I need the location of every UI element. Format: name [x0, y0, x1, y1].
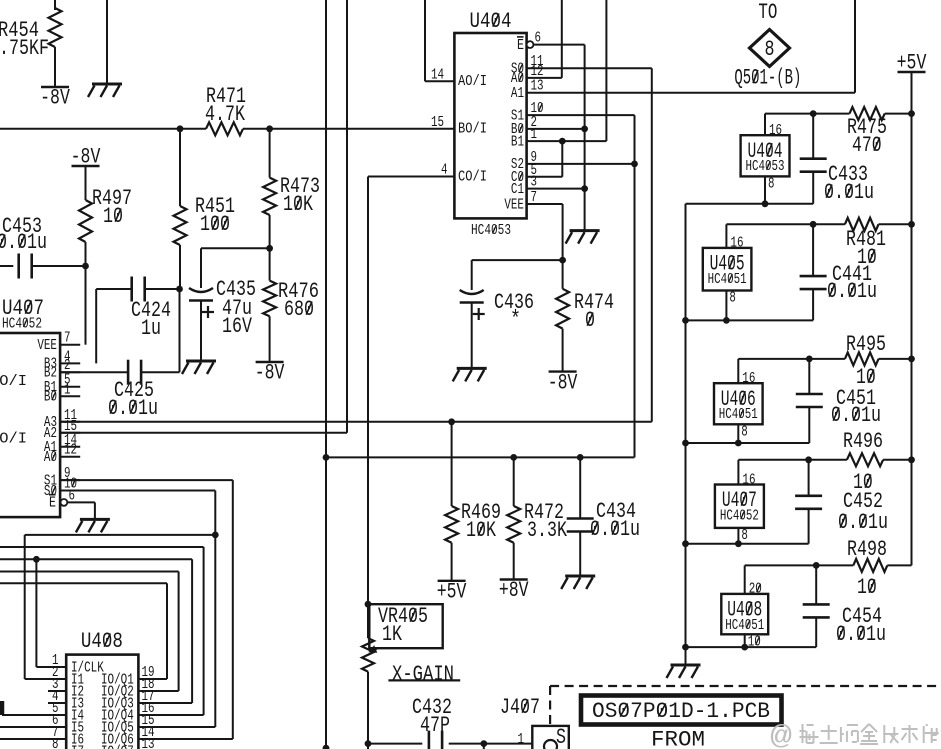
wire U408 pin5 off-page [2, 714, 66, 716]
power box U406 HC4051 [714, 383, 763, 424]
U407 pin 11 (A3) [60, 421, 80, 423]
node top-cap U405 [810, 221, 817, 228]
wire S1 U407 to U408 pin14 [60, 479, 233, 481]
capacitor C436 electrolytic [471, 260, 473, 290]
node S1S2-R472 [510, 454, 517, 461]
wire main bus to U404 BO/I pin 15 [0, 128, 206, 130]
watermark juejin [770, 723, 941, 749]
svg-text:1K: 1K [382, 621, 402, 647]
resistor R476 [263, 281, 276, 317]
svg-text:8: 8 [741, 423, 748, 440]
U407 pin 15 (A2) [60, 432, 80, 434]
node rail U405 [908, 221, 915, 228]
svg-text:20: 20 [749, 581, 762, 598]
wire R451 node down to C425 [179, 289, 181, 372]
svg-text:1: 1 [518, 731, 525, 748]
wire riser x326 page top to U408 pin13 [325, 0, 327, 748]
node x326 S1S2 line [323, 454, 330, 461]
ground bus right column [685, 204, 687, 664]
U404 pin 14 (AO/I) [424, 0, 426, 81]
U407 power pin 8 [737, 528, 739, 544]
svg-text:J407: J407 [500, 694, 540, 720]
U407 pin 6 (E) [61, 499, 68, 506]
wire U404 bypass bottom [686, 203, 814, 205]
wire S0 U407 to U408 pin15 [60, 490, 215, 492]
svg-text:-8V: -8V [71, 144, 101, 170]
wire riser x347 to page top [346, 0, 348, 433]
svg-text:HC4052: HC4052 [2, 316, 42, 333]
power box U407 HC4052 [715, 485, 764, 528]
resistor R497 [85, 166, 87, 200]
node gndbus U407 [682, 540, 689, 547]
wire A2 to riser x347 [60, 432, 347, 434]
+8V supply under R472 [500, 578, 528, 580]
ground under U404 E riser [570, 229, 600, 232]
node pin1-17 line [33, 556, 40, 563]
wire CO/I riser to VR405 [367, 177, 369, 605]
capacitor C425 [127, 360, 130, 385]
capacitor C453 [0, 265, 13, 267]
capacitor C441 [812, 224, 814, 276]
svg-text:+5V: +5V [437, 579, 467, 605]
svg-text:8: 8 [52, 736, 59, 749]
U404 power pin 16 [764, 114, 766, 136]
svg-text:7: 7 [64, 330, 71, 347]
op IC U408 box [66, 655, 138, 749]
svg-text:TO: TO [758, 0, 777, 25]
wire U408 pin19 route [138, 678, 167, 680]
node B1-C0 link [559, 138, 566, 145]
svg-text:HC4053: HC4053 [471, 222, 511, 239]
U404 pin 6 (E) [527, 41, 534, 48]
node x326 U408 pin13 [323, 745, 330, 749]
U407 pin 5 (B1) [60, 386, 80, 388]
resistor R471 [206, 122, 243, 135]
capacitor C435 electrolytic [189, 288, 213, 292]
svg-text:R498: R498 [847, 536, 887, 562]
svg-text:+5V: +5V [897, 50, 927, 76]
capacitor C454 [815, 565, 817, 604]
svg-text:-8V: -8V [548, 369, 578, 395]
wire E U407 to ground [67, 501, 95, 503]
node gndbus U405 [682, 317, 689, 324]
resistor R474 [556, 289, 569, 329]
wire E U404 to ground riser [533, 44, 584, 46]
node rail U404 [908, 110, 915, 117]
svg-text:Q501-(B): Q501-(B) [734, 65, 801, 91]
potentiometer VR405 [369, 604, 442, 648]
node U406 pin8 [735, 440, 742, 447]
wire U406 bypass bottom [686, 442, 810, 444]
resistor R498 [853, 559, 887, 572]
svg-text:12: 12 [64, 442, 77, 459]
svg-text:S: S [556, 724, 566, 749]
svg-text:FROM: FROM [651, 727, 705, 749]
svg-text:U404: U404 [470, 8, 512, 34]
svg-text:HC4051: HC4051 [725, 617, 764, 634]
wire B1 to C0 [561, 141, 563, 177]
node top-cap U408 [813, 562, 820, 569]
capacitor C434 [579, 457, 581, 518]
wire U408 pin15 route [138, 726, 215, 728]
chassis ground (top) [106, 0, 108, 84]
wire U405 bypass top [726, 223, 845, 225]
node rail U407 [908, 456, 915, 463]
svg-text:8: 8 [768, 175, 775, 192]
ground under C436 [457, 367, 487, 370]
svg-text:14: 14 [431, 67, 444, 84]
wire U408 pin7 off-page [0, 738, 66, 740]
svg-text:16: 16 [769, 122, 782, 139]
power box U405 HC4051 [703, 248, 752, 291]
capacitor C424 [95, 289, 97, 363]
-8V supply for R497 [72, 165, 100, 167]
node C453-R497-VEE [82, 263, 89, 270]
op IC U407 HC4052 box [0, 333, 60, 517]
wire U407 bypass top [738, 459, 847, 461]
svg-text:I7: I7 [71, 743, 84, 749]
U406 power pin 8 [737, 424, 739, 443]
svg-text:8: 8 [729, 290, 736, 307]
node VR405 bottom bus [365, 740, 372, 747]
resistor R495 [845, 352, 879, 365]
-8V supply for R476 [256, 361, 284, 363]
U406 power pin 16 [737, 359, 739, 383]
node U408 pin10 [741, 644, 748, 651]
off-page connector 8 to Q501-(B) [750, 30, 790, 67]
resistor R481 [845, 218, 879, 231]
wire U408 pin4 stub [48, 702, 66, 704]
wire U408 pin2 I1 [25, 678, 66, 680]
wire S1 U404 down-left S1S2 line [527, 114, 635, 116]
wire VEE U407 riser [85, 266, 87, 345]
U407 pin 10 (S0) [60, 490, 80, 492]
wire U408 pin3 stub [48, 690, 66, 692]
svg-text:4.75KF: 4.75KF [0, 35, 49, 61]
node A3-R469 [448, 418, 455, 425]
svg-text:OS07P01D-1.PCB: OS07P01D-1.PCB [592, 698, 770, 724]
wire U408 pin6 off-page [0, 726, 66, 728]
svg-text:B0: B0 [44, 389, 57, 406]
wire bottom bus [368, 743, 422, 745]
node C424-R451 [176, 286, 183, 293]
svg-text:@: @ [770, 723, 792, 749]
-8V supply for R474 [549, 370, 577, 372]
ground right column [671, 664, 701, 667]
svg-text:B1: B1 [511, 133, 524, 150]
svg-text:3.3K: 3.3K [527, 517, 567, 543]
svg-text:BO/I: BO/I [458, 121, 487, 138]
resistor R473 [269, 129, 271, 178]
node CO/I riser - VR405 [365, 601, 372, 608]
svg-text:4: 4 [441, 162, 448, 179]
svg-text:VEE: VEE [504, 196, 524, 213]
svg-text:16: 16 [730, 235, 743, 252]
svg-text:U408: U408 [81, 628, 123, 654]
svg-text:R496: R496 [843, 428, 883, 454]
U407 power pin 16 [737, 460, 739, 485]
capacitor C451 [808, 359, 810, 394]
op IC U404 HC4053 box [454, 33, 526, 218]
resistor R451 [179, 129, 181, 206]
U407 pin 1 (B0) [60, 395, 80, 397]
wire S2 U404 to S1S2 riser [527, 163, 635, 165]
U407 pin 9 (S1) [60, 479, 80, 481]
svg-text:16: 16 [742, 471, 755, 488]
power box U408 HC4051 [721, 594, 768, 634]
svg-text:R495: R495 [846, 331, 886, 357]
svg-text:AO/I: AO/I [458, 73, 487, 90]
U407 pin 2 (B2) [60, 371, 80, 373]
svg-text:-8V: -8V [40, 85, 70, 111]
svg-text:+8V: +8V [499, 577, 529, 603]
capacitor C452 [808, 460, 810, 496]
wire U408 pin18 route [138, 690, 178, 692]
resistor R496 [847, 453, 883, 466]
wire U408 pin17 route [138, 702, 192, 704]
resistor R475 [850, 107, 885, 120]
ground under C435 [186, 360, 216, 363]
U408 power pin 10 [744, 634, 746, 647]
svg-text:HC4052: HC4052 [720, 508, 759, 525]
node E riser - C1 [581, 185, 588, 192]
U407 pin 7 (VEE) [60, 344, 80, 346]
ground under C434 [565, 575, 595, 578]
node gndbus U406 [682, 440, 689, 447]
svg-text:*: * [510, 306, 521, 332]
wire U408 bypass bottom [686, 646, 817, 648]
+5V rail [898, 71, 926, 73]
node U405 pin8 [723, 317, 730, 324]
node bottom bus stub [480, 740, 487, 747]
wire A0 U404 riser to top [527, 77, 562, 79]
svg-text:1: 1 [64, 381, 71, 398]
svg-text:15: 15 [431, 114, 444, 131]
wire U404 bypass top [765, 113, 850, 115]
resistor R469 [451, 422, 453, 506]
svg-text:13: 13 [142, 736, 155, 749]
U407 pin 14 (A1) [60, 446, 80, 448]
node R471-R473 [266, 125, 273, 132]
wire A1 U404 to top right [527, 92, 855, 94]
wire B1 U404 riser to top [527, 140, 607, 142]
svg-text:-8V: -8V [255, 360, 285, 386]
svg-text:HC4051: HC4051 [708, 271, 747, 288]
node VEE-R474 [559, 257, 566, 264]
node top-cap U404 [810, 110, 817, 117]
svg-text:A0: A0 [44, 449, 57, 466]
U407 pin 4 (B3) [60, 362, 80, 364]
wire VEE U404 down to C436/R474 [527, 203, 563, 205]
node S1S2-C434 [577, 454, 584, 461]
node S0 riser - I1 branch [212, 532, 219, 539]
node rail U406 [908, 356, 915, 363]
node gndbus U408 [682, 644, 689, 651]
svg-text:HC4053: HC4053 [746, 158, 785, 175]
capacitor C433 [812, 114, 814, 159]
svg-text:VEE: VEE [37, 337, 57, 354]
+5V supply under R469 [438, 580, 466, 582]
wire U408 pin1 I/CLK [36, 666, 66, 668]
-8V supply for R454 [41, 86, 69, 88]
node R473-R476-C435 [266, 245, 273, 252]
node U404 pin8 [762, 200, 769, 207]
svg-text:16V: 16V [222, 313, 252, 339]
wire C435 top to R473/R476 node [201, 247, 270, 249]
U404 power pin 8 [764, 176, 766, 203]
ground under U407 E [80, 518, 110, 521]
U405 power pin 16 [725, 224, 727, 248]
svg-text:680: 680 [284, 296, 314, 322]
wire S0 U404 down to A3 line [527, 67, 652, 69]
svg-text:CO/I: CO/I [458, 169, 487, 186]
wire U407 bypass bottom [686, 543, 809, 545]
svg-text:4.7K: 4.7K [205, 101, 245, 127]
wire B2 to C425 to C424 node [60, 371, 128, 373]
wire U408 bypass top [745, 564, 854, 566]
node U407 pin8 [735, 540, 742, 547]
U404 pin 4 (CO/I) [368, 176, 454, 178]
resistor R472 [513, 457, 515, 506]
wire A3 long to U404 S0 riser [60, 421, 652, 423]
wire U408 pin16 route [138, 714, 203, 716]
svg-text:HC4051: HC4051 [719, 406, 758, 423]
node top-cap U407 [805, 456, 812, 463]
svg-text:E: E [517, 37, 524, 54]
svg-text:BO/I: BO/I [0, 373, 27, 390]
resistor R454 [54, 0, 56, 10]
U405 power pin 8 [725, 291, 727, 321]
capacitor C432 [428, 731, 431, 749]
svg-text:0.01u: 0.01u [0, 229, 47, 255]
node top-cap U406 [806, 356, 813, 363]
svg-text:10: 10 [857, 574, 877, 600]
dashed PCB boundary [549, 686, 551, 726]
wire U406 bypass top [738, 358, 845, 360]
wire U408 pin14 route [138, 738, 232, 740]
svg-text:16: 16 [742, 370, 755, 387]
svg-text:1u: 1u [141, 315, 161, 341]
svg-text:X-GAIN: X-GAIN [392, 661, 454, 687]
power box U404 HC4053 [741, 135, 790, 176]
svg-text:10: 10 [103, 203, 123, 229]
node E riser - B0 [581, 125, 588, 132]
U408 power pin 20 [744, 565, 746, 594]
svg-text:8: 8 [765, 36, 775, 62]
wire B0 U404 to E riser [527, 128, 585, 130]
label box OS07P01D-1.PCB [581, 696, 782, 725]
node bus-R451 [177, 125, 184, 132]
svg-text:IO/Q7: IO/Q7 [101, 743, 134, 749]
svg-text:A1: A1 [511, 85, 524, 102]
svg-text:AO/I: AO/I [0, 431, 27, 448]
U407 pin 12 (A0) [60, 456, 80, 458]
svg-text:8: 8 [741, 527, 748, 544]
svg-text:47P: 47P [420, 712, 450, 738]
wire C1 U404 to E riser [527, 188, 585, 190]
node S2 junction [631, 161, 638, 168]
wire U405 bypass bottom [686, 319, 814, 321]
svg-text:E: E [49, 495, 56, 512]
